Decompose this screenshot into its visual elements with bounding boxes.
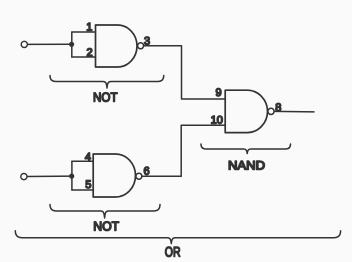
wire pin 2 bbox=[72, 56, 96, 58]
brace OR (whole circuit) bbox=[15, 231, 340, 244]
wire pin 6 to pin 10 bbox=[142, 125, 225, 176]
svg-text:NOT: NOT bbox=[93, 89, 118, 104]
wire tie vertical bbox=[71, 161, 73, 190]
wire pin 5 bbox=[72, 189, 93, 191]
NAND gate U1A (wired as NOT) bbox=[96, 25, 138, 67]
wire pin 4 bbox=[72, 160, 93, 162]
wire bottom input bbox=[27, 175, 71, 177]
svg-text:NAND: NAND bbox=[228, 158, 265, 172]
input terminal (top input) bbox=[21, 41, 27, 47]
output bubble U1B bbox=[136, 173, 142, 179]
wire top input bbox=[28, 43, 72, 45]
wire output pin 8 bbox=[274, 110, 314, 113]
svg-text:NOT: NOT bbox=[93, 219, 119, 234]
junction dot (pins 1-2 tie) bbox=[69, 42, 74, 47]
NAND gate U1C bbox=[225, 90, 267, 132]
svg-text:OR: OR bbox=[165, 244, 181, 259]
output bubble U1C bbox=[268, 108, 274, 114]
svg-text:10: 10 bbox=[211, 114, 223, 126]
brace NAND bbox=[201, 144, 291, 154]
brace NOT (top gate) bbox=[50, 76, 164, 89]
output bubble U1A bbox=[138, 43, 144, 49]
wire tie vertical bbox=[71, 32, 73, 57]
svg-text:9: 9 bbox=[215, 87, 221, 99]
wire pin 3 to pin 9 bbox=[144, 46, 226, 99]
wire pin 1 bbox=[72, 31, 96, 33]
brace NOT (bottom gate) bbox=[50, 205, 160, 219]
junction dot (pins 4-5 tie) bbox=[69, 174, 74, 179]
svg-text:4: 4 bbox=[85, 152, 91, 164]
svg-text:2: 2 bbox=[86, 47, 92, 59]
svg-text:5: 5 bbox=[85, 179, 91, 191]
svg-text:1: 1 bbox=[86, 21, 92, 33]
NAND gate U1B (wired as NOT) bbox=[93, 154, 135, 197]
input terminal (bottom input) bbox=[21, 174, 27, 180]
